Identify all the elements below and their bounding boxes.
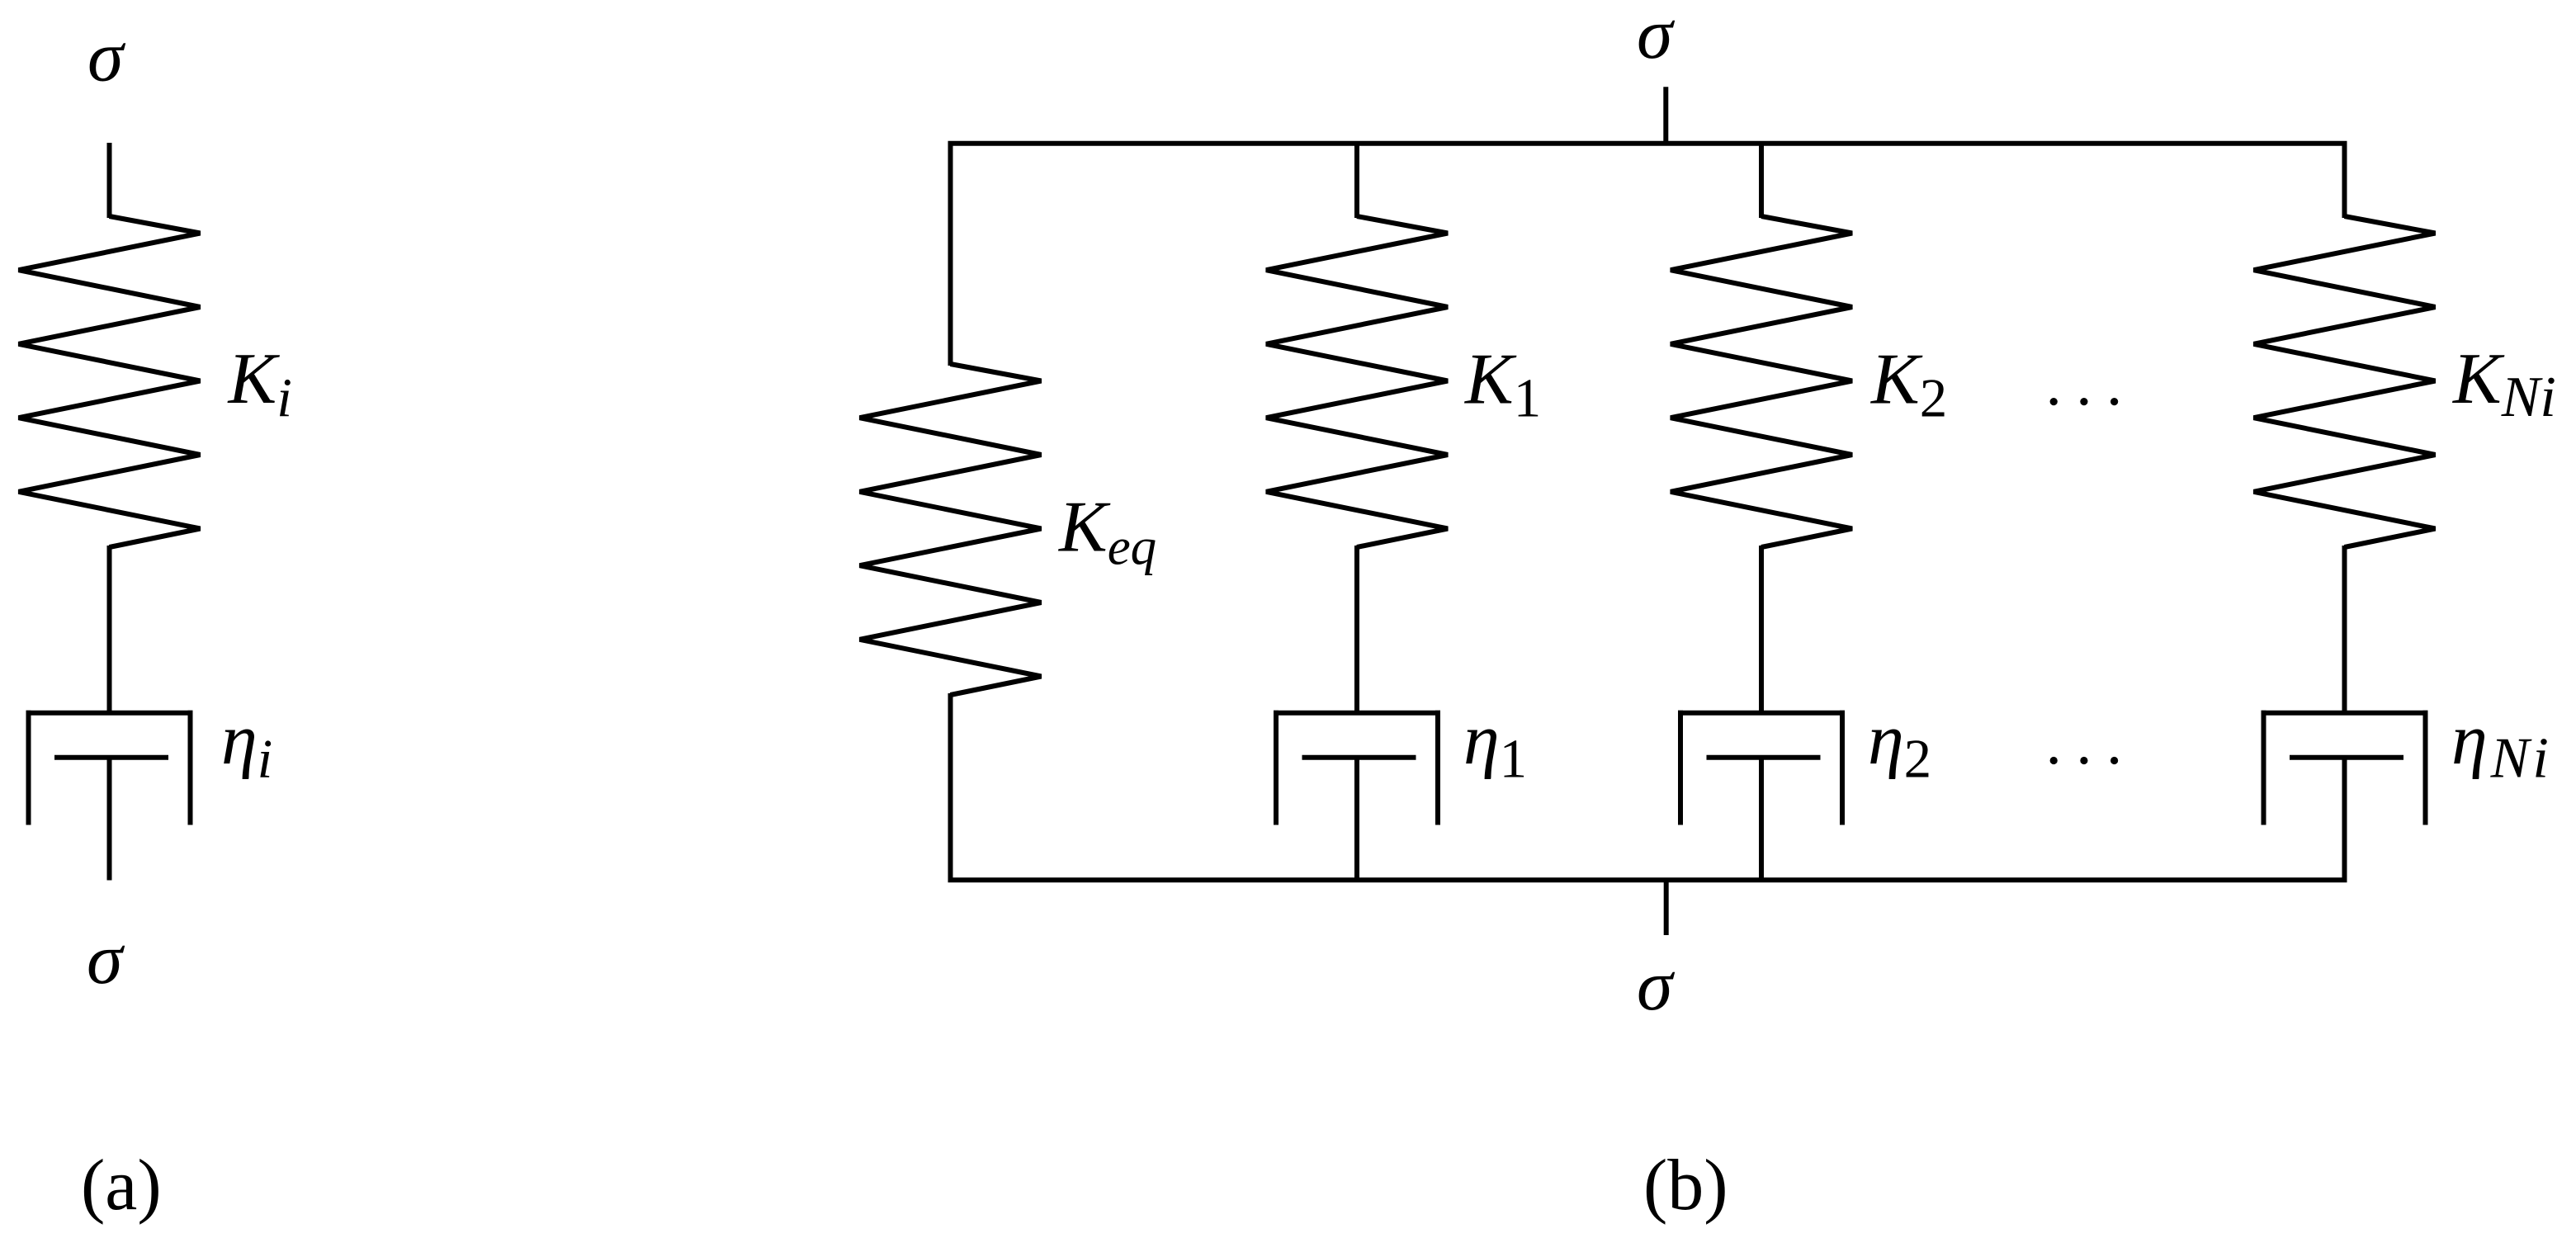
svg-text:σ: σ: [1637, 946, 1676, 1026]
svg-text:Keq: Keq: [1057, 488, 1156, 576]
svg-text:Ki: Ki: [227, 339, 292, 428]
svg-text:(b): (b): [1643, 1146, 1728, 1226]
svg-text:ηNi: ηNi: [2451, 701, 2552, 791]
svg-text:(a): (a): [81, 1146, 162, 1226]
svg-text:KNi: KNi: [2451, 339, 2556, 429]
svg-text:ηi: ηi: [221, 701, 272, 790]
svg-text:K2: K2: [1869, 340, 1947, 429]
svg-text:η1: η1: [1463, 701, 1527, 790]
svg-text:σ: σ: [87, 919, 125, 999]
svg-text:σ: σ: [1637, 0, 1676, 74]
svg-text:K1: K1: [1463, 340, 1541, 429]
svg-text:η2: η2: [1868, 701, 1931, 790]
svg-text:σ: σ: [87, 17, 126, 97]
